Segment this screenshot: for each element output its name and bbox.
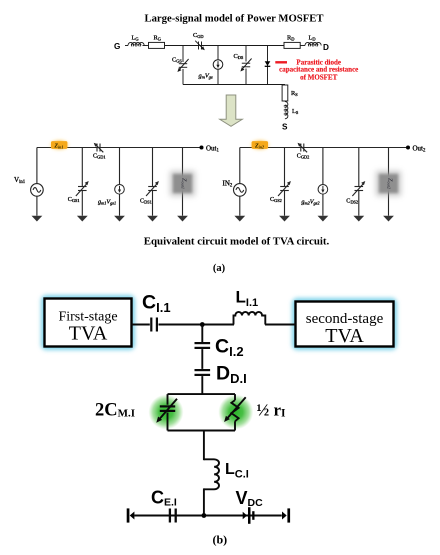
capacitor CGD2 (variable, series): [300, 144, 302, 152]
svg-text:gmVgs: gmVgs: [199, 73, 213, 80]
ground: [32, 216, 43, 222]
ground: [114, 216, 125, 222]
capacitor CDS1 branch: [152, 148, 154, 187]
inductor LG: [128, 42, 144, 45]
Zout2 branch: [388, 148, 390, 216]
red annotation text: [279, 58, 358, 81]
svg-text:CGS1: CGS1: [68, 196, 80, 203]
resistor half rI (variable): [231, 400, 238, 421]
right port terminal: [282, 512, 287, 520]
VDC source: [243, 512, 247, 519]
block arrow down: [220, 95, 243, 126]
capacitor CGD (variable): [198, 42, 200, 50]
resistor RS: [282, 85, 288, 101]
AC source Vin1: [36, 197, 38, 216]
svg-text:Zin1: Zin1: [53, 144, 63, 150]
svg-text:Large-signal model of Power MO: Large-signal model of Power MOSFET: [144, 13, 323, 25]
svg-text:CGD: CGD: [193, 32, 204, 39]
wire CI.1 to node to LI.1: [159, 324, 235, 326]
red pointer dash: [275, 61, 287, 63]
svg-text:CDS1: CDS1: [140, 198, 152, 205]
svg-text:Zout2: Zout2: [387, 178, 394, 189]
node Out1: [200, 146, 204, 150]
wire loop to LC.I: [203, 431, 205, 461]
ground: [77, 216, 88, 222]
node junction bottom: [202, 513, 207, 518]
loop rectangle: [168, 394, 236, 430]
Zin1 label: [49, 140, 69, 150]
top wire: [240, 147, 408, 149]
ground: [318, 216, 329, 222]
svg-text:CGS2: CGS2: [270, 196, 282, 203]
svg-text:of MOSFET: of MOSFET: [300, 73, 337, 81]
capacitor CGS2 branch: [284, 148, 286, 187]
svg-text:(a): (a): [213, 263, 226, 274]
green glow right: [218, 395, 253, 430]
wire G to LG: [125, 45, 128, 47]
svg-text:CDS: CDS: [234, 53, 244, 60]
inductor LS: [285, 102, 288, 119]
inductor LI.1: [234, 312, 266, 325]
svg-text:(b): (b): [212, 533, 227, 547]
current source gmVgs: [217, 46, 219, 60]
svg-text:D: D: [323, 43, 329, 52]
current source gm2Vgs2: [322, 148, 324, 185]
svg-text:Zin2: Zin2: [254, 144, 264, 150]
svg-text:CGS: CGS: [172, 57, 182, 64]
inductor LD: [300, 45, 305, 47]
svg-text:CGD1: CGD1: [93, 152, 106, 159]
svg-text:Zout1: Zout1: [181, 178, 188, 189]
resistor RD: [284, 42, 300, 48]
current source gm1Vgs1: [119, 148, 121, 185]
parasitic diode branch: [267, 46, 269, 85]
bottom rail: [134, 515, 281, 517]
capacitor 2CM.I (variable): [160, 405, 175, 407]
svg-text:RG: RG: [154, 34, 162, 41]
svg-text:RS: RS: [291, 90, 298, 97]
diode DD.I: [195, 369, 211, 371]
ground: [279, 216, 290, 222]
svg-text:Equivalent circuit model of TV: Equivalent circuit model of TVA circuit.: [144, 236, 330, 248]
svg-text:LD: LD: [309, 35, 316, 42]
Zout1 branch: [182, 148, 184, 216]
capacitor CGS (variable): [179, 63, 187, 65]
node junction: [200, 322, 205, 327]
ground: [353, 216, 364, 222]
capacitor CGD1 (variable, series): [96, 144, 98, 152]
svg-text:TVA: TVA: [69, 322, 108, 344]
svg-text:gm1Vgs1: gm1Vgs1: [98, 198, 116, 205]
first-stage TVA box: [45, 299, 132, 347]
svg-text:S: S: [282, 122, 288, 131]
wire LI.1 to box2: [265, 324, 296, 326]
svg-text:gm2Vgs2: gm2Vgs2: [301, 198, 320, 205]
wire DD.I to loop: [201, 376, 203, 394]
wire left vertical branch: [182, 46, 184, 63]
Zin2 label: [250, 140, 270, 150]
wire CI.2 to DD.I: [201, 349, 203, 369]
AC source IN2: [239, 197, 241, 216]
svg-text:CDS2: CDS2: [346, 198, 358, 205]
resistor RG: [149, 42, 165, 48]
green glow left: [149, 395, 184, 430]
capacitor CDS (variable): [245, 46, 247, 62]
node Out2: [406, 146, 410, 150]
ground: [234, 216, 245, 222]
wire LG to RG: [143, 45, 149, 47]
svg-text:RD: RD: [287, 35, 294, 42]
top wire: [37, 147, 202, 149]
capacitor CI.2: [195, 342, 211, 344]
ground: [147, 216, 158, 222]
capacitor CI.1: [150, 318, 152, 332]
wire box1 to CI.1: [132, 324, 150, 326]
wire RG to node, top rail: [165, 45, 285, 47]
second-stage TVA box: [296, 302, 394, 347]
ground: [177, 216, 188, 222]
capacitor CE.I: [169, 509, 171, 523]
inductor LC.I: [204, 459, 219, 489]
svg-text:CGD2: CGD2: [297, 152, 310, 159]
wire node down: [201, 325, 203, 343]
left port terminal: [127, 508, 130, 522]
wire LC.I to bottom rail: [203, 488, 205, 515]
svg-text:LG: LG: [132, 34, 140, 41]
svg-text:G: G: [114, 42, 120, 51]
svg-text:LS: LS: [292, 108, 299, 115]
capacitor CGS1 branch: [81, 148, 83, 187]
capacitor CDS2 branch: [358, 148, 360, 187]
ground: [383, 216, 394, 222]
svg-text:TVA: TVA: [325, 325, 364, 347]
bottom rail: [183, 84, 285, 86]
